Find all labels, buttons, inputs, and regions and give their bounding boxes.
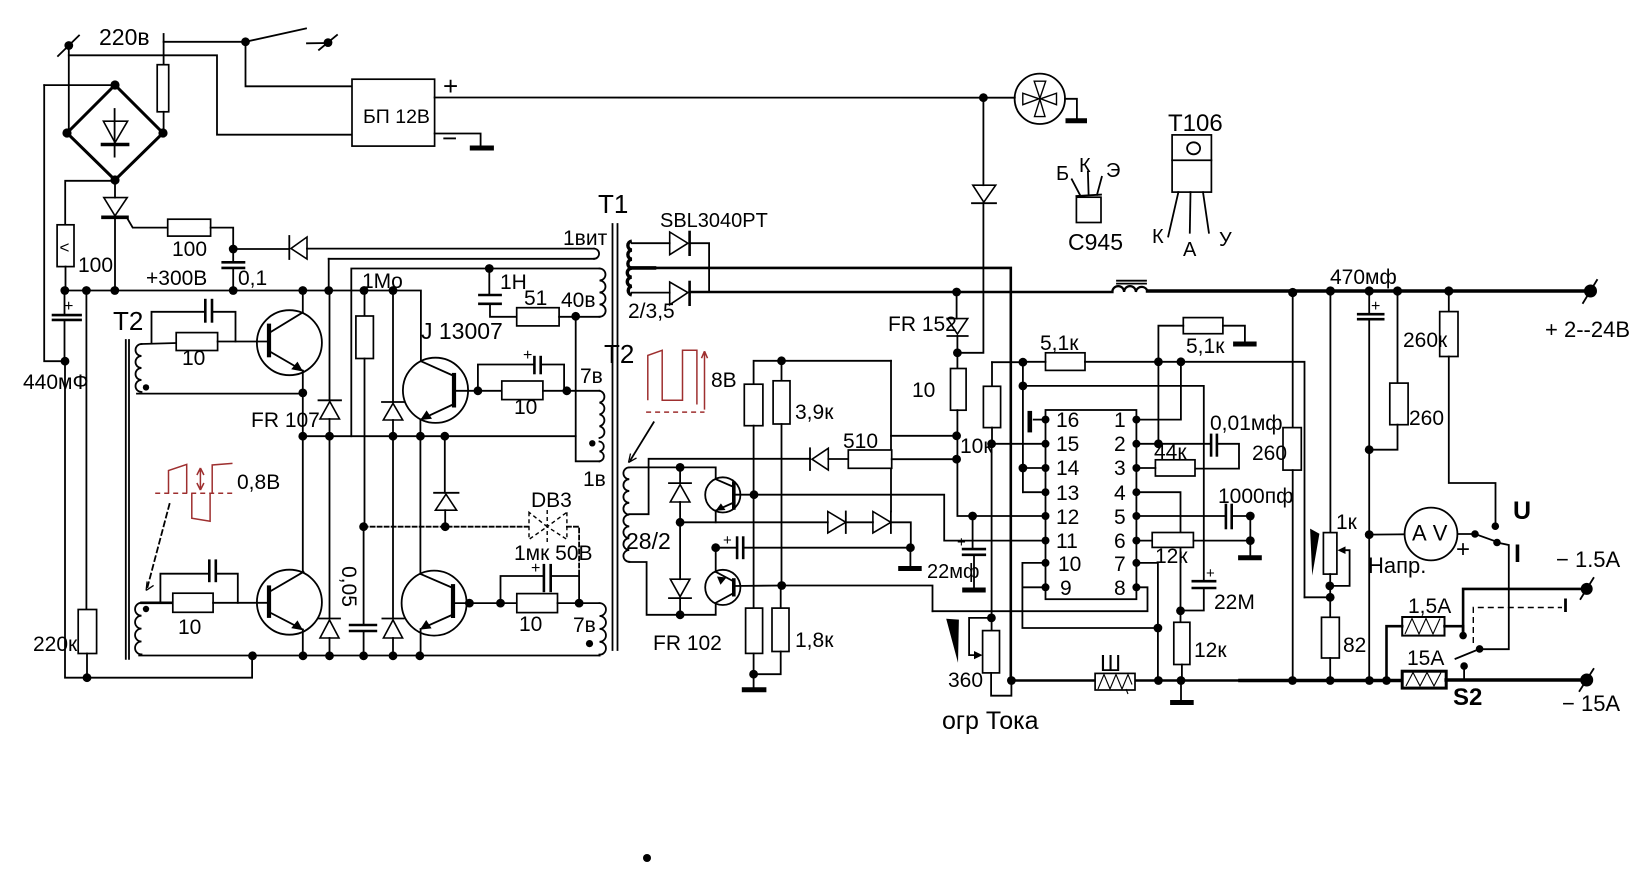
transistor C945 (pictorial) — [1072, 172, 1102, 223]
wire: 3,9к top run — [754, 361, 891, 384]
node: 7в lower top — [575, 599, 584, 608]
wire: center tap line to minus bus — [655, 268, 1011, 682]
wire: 10к column down to 360 pot — [991, 444, 993, 631]
svg-text:22М: 22М — [1214, 591, 1255, 614]
diode D1 (series pair) — [828, 512, 873, 534]
wire: fuse to bridge right corner — [163, 112, 165, 133]
resistor 1Mo — [356, 291, 374, 527]
node dots on +300V rail — [60, 286, 397, 295]
svg-text:+: + — [1456, 536, 1470, 563]
winding 28/2 — [623, 467, 629, 561]
svg-text:<: < — [60, 238, 70, 257]
svg-text:260к: 260к — [1403, 329, 1448, 352]
wire: to pin 15 — [992, 443, 1046, 445]
node: cap right / ground — [906, 543, 915, 552]
svg-text:10: 10 — [178, 616, 201, 639]
switch U/I common — [1471, 530, 1496, 541]
core T1/T2 center — [613, 224, 618, 650]
transistor Q5 (FR102 top) — [705, 477, 740, 512]
svg-text:FR 107: FR 107 — [251, 409, 320, 432]
svg-text:7в: 7в — [573, 614, 596, 637]
wire: I contact down — [1481, 543, 1509, 650]
svg-text:U: U — [1513, 497, 1531, 525]
diode D up (28/2) — [669, 467, 691, 522]
wire: T2b top to resistor — [142, 601, 173, 604]
terminal +2--24В — [1583, 280, 1597, 303]
wire: PSU minus to ground — [435, 134, 481, 147]
svg-text:К: К — [1079, 155, 1091, 177]
node: 40в bottom — [571, 312, 580, 321]
wire: +12V rail to fan — [435, 97, 1015, 99]
resistor 10 (Q1 base) — [176, 333, 217, 351]
wire: 40в bottom down to 1в winding — [576, 317, 600, 462]
diac DB3 (dashed bowtie) — [529, 510, 567, 542]
wire: bottom return to emitter rail — [87, 656, 252, 678]
pot 360 — [969, 618, 1011, 696]
wire: node to diode — [233, 248, 289, 250]
node: 260 join — [1365, 445, 1374, 454]
svg-text:А V: А V — [1412, 521, 1448, 546]
resistor 260к — [1440, 291, 1496, 524]
svg-text:8В: 8В — [711, 369, 737, 392]
wire: thyristor gate — [127, 217, 168, 227]
resistor 51 — [517, 308, 559, 326]
wire: dashed DB3 right — [567, 527, 579, 575]
resistor 220к — [78, 610, 96, 654]
wire: rail to 220к resistor — [85, 291, 87, 610]
svg-text:470мф: 470мф — [1330, 266, 1397, 289]
wire: thermistor to +300 rail — [65, 267, 67, 291]
wire: 1304 column to pot bottom — [1305, 596, 1331, 598]
terminal -15A — [1580, 669, 1594, 691]
node: 360 top — [987, 614, 996, 623]
winding T2b (bottom feedback) — [135, 603, 141, 655]
svg-text:260: 260 — [1409, 407, 1444, 430]
node: AV meter join — [1365, 530, 1374, 539]
resistor 44к — [1155, 460, 1195, 476]
wire: resistor to 7в lower top — [558, 602, 600, 604]
wire A: to FR152 column — [891, 435, 957, 437]
wedge (1к pot) — [1310, 529, 1319, 576]
svg-text:14: 14 — [1056, 457, 1080, 480]
svg-text:2: 2 — [1114, 433, 1126, 456]
contact I — [1493, 539, 1501, 547]
wire: 40в top line — [351, 269, 599, 437]
svg-text:Ш: Ш — [1100, 650, 1121, 676]
diode D2 (series pair) — [873, 512, 911, 548]
svg-text:510: 510 — [843, 430, 878, 453]
resistor 12к no.1 — [1152, 533, 1193, 548]
wire: pin 4 loop — [1136, 492, 1180, 610]
diode symbol inside bridge — [103, 109, 128, 157]
svg-text:1,8к: 1,8к — [795, 629, 834, 652]
svg-text:82: 82 — [1343, 634, 1366, 657]
winding T2a (top feedback) — [136, 344, 142, 392]
pot 1к — [1323, 291, 1349, 617]
wire: top AC run from fuse to switch — [164, 34, 245, 65]
wire: lower AC run to PSU — [69, 55, 352, 134]
node: R_b top — [777, 356, 786, 365]
block БП 12В — [352, 79, 435, 146]
wire: bridge top corner to left vertical — [44, 84, 115, 86]
resistor 5,1к no.2 — [1183, 318, 1223, 334]
svg-text:3,9к: 3,9к — [795, 401, 834, 424]
svg-text:А: А — [1183, 239, 1197, 261]
wire: 5,1к no.2 right to ground — [1223, 326, 1245, 342]
wire: Q1 collector to rail — [302, 291, 304, 313]
polarity dot T2b — [143, 606, 149, 612]
node: fan tap — [979, 93, 988, 102]
wire: gate resistor to node — [211, 228, 234, 249]
svg-text:FR 152: FR 152 — [888, 313, 957, 336]
wire: 28/2 bottom to Q6 collector — [629, 562, 715, 615]
wire: Q2 emitter to bus to Q4 collector — [419, 419, 421, 574]
diode SBL top — [670, 232, 690, 255]
resistor R_a (divider top) — [744, 384, 763, 426]
svg-text:15А: 15А — [1407, 647, 1444, 670]
wire: diode down to FR152 node — [957, 203, 983, 353]
svg-text:1вит: 1вит — [563, 227, 608, 250]
svg-text:9: 9 — [1060, 577, 1072, 600]
wire: Q4 base — [453, 602, 517, 604]
svg-text:0,01мф: 0,01мф — [1210, 412, 1283, 435]
svg-text:Т106: Т106 — [1168, 110, 1223, 137]
wire: 5,1к left — [1023, 361, 1046, 363]
resistor 260 no.1 — [1283, 293, 1301, 681]
svg-text:DB3: DB3 — [531, 489, 572, 512]
svg-text:К: К — [1152, 226, 1164, 248]
wire: 10к top jog — [992, 361, 1023, 363]
diode FR107 no.3 — [319, 436, 340, 655]
ground (22мф left) — [898, 548, 922, 569]
svg-text:T1: T1 — [598, 189, 628, 219]
capacitor 440мФ — [53, 291, 81, 362]
wire: 1,5А left leg — [1387, 626, 1403, 680]
node: 5,1к no.2 tap — [1154, 357, 1163, 366]
svg-text:260: 260 — [1252, 442, 1287, 465]
ground (fan) — [1066, 118, 1088, 123]
pin 16 stub and bar — [1028, 411, 1046, 433]
wire: column down to pin12 wire — [957, 410, 1045, 516]
thyristor Т106 (pictorial) — [1168, 135, 1211, 237]
wire: 7в lower bottom to emitter rail — [599, 654, 601, 657]
svg-text:5,1к: 5,1к — [1040, 332, 1079, 355]
capacitor 1000пф — [1226, 505, 1250, 528]
resistor 1,8к — [754, 586, 789, 675]
node dots on + rail — [1288, 286, 1453, 297]
svg-text:FR 102: FR 102 — [653, 632, 722, 655]
dashed arrow to winding — [146, 504, 169, 590]
svg-text:+: + — [64, 298, 73, 315]
svg-text:Т2: Т2 — [113, 306, 143, 336]
svg-text:Напр.: Напр. — [1368, 553, 1426, 578]
wire: 220к bottom to corner — [86, 654, 88, 678]
wire: pin 6 — [1136, 540, 1152, 542]
pin dots left — [1042, 416, 1050, 592]
node: 440мФ bottom — [61, 357, 70, 366]
diode (510 branch) — [810, 448, 848, 470]
wire: Q6 base — [734, 585, 782, 588]
node: diode column top — [676, 463, 685, 472]
ground (12к no.2) — [1170, 681, 1194, 703]
dashed link S2 — [1473, 599, 1565, 644]
svg-text:−: − — [442, 123, 457, 153]
wire: y386 run to 12к no.1 — [1023, 386, 1204, 581]
wire: pins 9/10 loop — [1022, 563, 1158, 628]
svg-text:7: 7 — [1114, 553, 1126, 576]
node: DB3 left junction — [441, 522, 450, 531]
resistor 10 (FR152) — [951, 369, 967, 411]
svg-text:1мк 50В: 1мк 50В — [514, 542, 593, 565]
contact U — [1492, 522, 1500, 530]
meter AV — [1405, 508, 1458, 561]
resistor 3,9к — [773, 361, 790, 586]
waveform 0,8В (red) — [155, 463, 235, 521]
wire: center tap (thick stub) — [632, 266, 655, 270]
svg-text:0,1: 0,1 — [238, 267, 267, 290]
ground (5,1к no.2) — [1233, 342, 1257, 347]
node: 1Mo / DB3 dashed junction — [359, 522, 368, 531]
polarity dot T2a — [143, 384, 149, 390]
transistor Q1 (driver top) — [257, 310, 322, 375]
node: Q1 emitter / winding bottom — [298, 389, 307, 398]
capacitor 0,05 — [350, 625, 376, 656]
wire: +output rail (thick) — [1148, 289, 1585, 293]
wire: mid bus — [303, 435, 576, 437]
capacitor 1Н — [479, 269, 516, 317]
svg-text:220к: 220к — [33, 633, 78, 656]
resistor 12к no.2 — [1174, 611, 1190, 680]
node: pin2/cap tap — [1154, 439, 1163, 448]
svg-text:10: 10 — [514, 396, 537, 419]
wire: Q6 emitter up — [715, 548, 717, 572]
wire: -1.5A output (thick) — [1463, 589, 1587, 636]
wire: SBL top output — [690, 243, 710, 291]
node: 7в top — [562, 386, 571, 395]
node: wire A junction — [952, 431, 961, 440]
wire: Q5 base — [734, 494, 755, 496]
fuse F1 — [157, 65, 169, 112]
fan M1 — [1015, 74, 1065, 124]
wire: Q5 base long run to pin 11 — [754, 495, 1046, 541]
winding 1в — [600, 442, 604, 462]
diode (bus to DB3) — [434, 436, 458, 527]
capacitor (Q1 base speedup) — [152, 300, 236, 343]
diode (fan feed) — [972, 185, 996, 203]
terminal -1.5A — [1581, 578, 1594, 599]
svg-text:+ 2--24В: + 2--24В — [1545, 317, 1630, 342]
transistor Q6 (FR102 bottom) — [705, 570, 740, 605]
wire: R_a bottom / Q5 base column — [753, 426, 755, 608]
ground (1000пф) — [1238, 555, 1262, 560]
ground (PSU) — [470, 146, 494, 151]
svg-text:4: 4 — [1114, 482, 1126, 505]
resistor 5,1к no.1 — [1046, 353, 1086, 371]
wire: left aux column (pins 14/13) — [1023, 362, 1046, 492]
svg-text:10: 10 — [182, 347, 205, 370]
resistor 82 — [1322, 617, 1340, 680]
svg-text:+: + — [957, 534, 966, 551]
wire: ground rail (shunt rail) — [1011, 679, 1402, 682]
wire: switch node down to PSU input — [246, 42, 353, 87]
svg-text:1к: 1к — [1336, 511, 1358, 534]
node: cap left — [496, 599, 505, 608]
winding 40в — [600, 269, 606, 317]
svg-text:1,5А: 1,5А — [1408, 595, 1451, 618]
svg-text:Б: Б — [1056, 163, 1069, 185]
svg-text:S2: S2 — [1453, 684, 1482, 711]
svg-text:Э: Э — [1106, 160, 1120, 182]
svg-text:1: 1 — [1114, 409, 1126, 432]
resistor 10 (Q3 base) — [173, 593, 213, 612]
wire: Q6 base run (огр Тока) — [782, 586, 933, 612]
waveform 8В (red) — [646, 350, 707, 412]
stray dot — [643, 854, 651, 862]
wire: fan feed down — [982, 98, 984, 186]
wire: pin 1 — [1136, 362, 1181, 420]
svg-text:2/3,5: 2/3,5 — [628, 300, 675, 323]
svg-text:360: 360 — [948, 669, 983, 692]
wire: resistor to Q3 base — [213, 602, 267, 604]
svg-text:12к: 12к — [1155, 545, 1188, 568]
svg-text:+: + — [443, 71, 458, 101]
wedge (360 pot) — [946, 619, 959, 663]
wire: Q3 emitter to rail — [302, 630, 304, 656]
transistor Q4 J13007 (lower) — [402, 571, 467, 636]
capacitor 1мк 50В — [501, 560, 580, 603]
wire: +300V rail — [65, 291, 421, 362]
node: 5,1к no.1 left — [1019, 358, 1028, 367]
node: FR152 bottom — [953, 348, 962, 357]
wire: meter left — [1369, 533, 1404, 535]
wire: Q1 emitter down — [302, 371, 304, 394]
wire: T2a bottom line — [137, 393, 303, 395]
svg-text:0,8В: 0,8В — [237, 471, 280, 494]
svg-text:Т2: Т2 — [604, 339, 634, 369]
svg-text:15: 15 — [1056, 433, 1079, 456]
svg-text:С945: С945 — [1068, 229, 1123, 255]
resistor 260 no.2 — [1369, 291, 1408, 450]
wire: pin 5 — [1136, 515, 1226, 517]
svg-text:28/2: 28/2 — [626, 528, 671, 554]
wire: fan to ground — [1065, 99, 1077, 119]
diode FR107 no.1 — [319, 291, 342, 437]
svg-text:220в: 220в — [99, 24, 150, 50]
wire: 51 to 40в bottom — [559, 316, 599, 318]
wire: Q3 collector up to bus column — [302, 436, 304, 572]
svg-text:12: 12 — [1056, 506, 1079, 529]
winding 1вит (hairpin) — [307, 249, 599, 291]
capacitor (Q2 base, polarized) — [478, 347, 564, 391]
svg-text:1в: 1в — [583, 468, 606, 491]
svg-text:100: 100 — [78, 254, 113, 277]
wire: pin 3 — [1136, 467, 1155, 469]
wire: top run down to diode pair — [890, 361, 892, 512]
svg-text:− 15А: − 15А — [1562, 691, 1620, 716]
wire: 1000пф ground column — [1249, 516, 1251, 556]
wire: 510 run — [809, 458, 811, 460]
svg-text:11: 11 — [1056, 530, 1078, 553]
svg-text:6: 6 — [1114, 530, 1126, 553]
node: pin14 edge — [1019, 464, 1028, 473]
svg-text:22мф: 22мф — [927, 561, 979, 583]
node: 1000пф right — [1246, 512, 1255, 521]
svg-text:13: 13 — [1056, 482, 1079, 505]
node: Q5 base tap — [750, 490, 759, 499]
wire: Q1 emitter to mid bus — [302, 394, 304, 437]
IC box U1 — [1046, 410, 1137, 599]
wire: 28/2 center tap long run — [629, 459, 810, 514]
shunt Ш — [1095, 673, 1135, 694]
capacitor (Q6 emitter) — [716, 532, 911, 558]
svg-text:I: I — [1514, 540, 1521, 568]
node: 22мф tap — [968, 512, 977, 521]
svg-text:7в: 7в — [580, 365, 603, 388]
switch S1 blade — [241, 29, 337, 50]
svg-text:10: 10 — [519, 613, 542, 636]
svg-text:3: 3 — [1114, 457, 1126, 480]
node: wire B junction — [952, 455, 961, 464]
node: bottom left corner — [83, 673, 92, 682]
svg-text:БП 12В: БП 12В — [363, 106, 430, 128]
svg-text:12к: 12к — [1194, 639, 1227, 662]
node: pin4/pin8/22М junction — [1176, 606, 1185, 615]
node: divider ground — [749, 670, 758, 679]
svg-text:+: + — [523, 347, 532, 364]
resistor 10 (Q2 base) — [502, 381, 543, 400]
fuse 1,5А — [1402, 617, 1444, 636]
wire: 5,1к no.2 left — [1158, 326, 1183, 444]
svg-text:1000пф: 1000пф — [1218, 485, 1293, 508]
diode VD2 (to 1вит winding) — [289, 236, 307, 259]
node dots on shunt rail — [1007, 676, 1391, 685]
node: 10к bottom / pin15 — [987, 439, 996, 448]
node: contact C1 — [1459, 632, 1467, 640]
wire: AC left node down to bridge left corner — [68, 46, 70, 134]
svg-text:У: У — [1219, 229, 1232, 251]
svg-text:1Н: 1Н — [500, 271, 527, 294]
svg-text:+: + — [1371, 298, 1380, 315]
diode SBL bottom — [670, 282, 690, 305]
capacitor 0,01мф — [1195, 435, 1239, 469]
resistor 10 (Q4 base) — [517, 594, 558, 613]
transistor Q2 symbol — [403, 358, 468, 423]
node: pins 7/9/10 junction — [1154, 624, 1163, 633]
svg-text:8: 8 — [1114, 577, 1126, 600]
node: gate node — [229, 245, 238, 254]
wire: T2a top to base resistor — [142, 343, 177, 344]
node: FR152 tap — [952, 288, 961, 297]
svg-text:0,05: 0,05 — [337, 566, 360, 607]
node dots on mid bus — [298, 432, 449, 441]
wire: down left side to bottom — [65, 361, 87, 678]
node: 1Н top — [485, 264, 494, 273]
diode FR152 — [947, 292, 967, 369]
svg-text:40в: 40в — [561, 289, 596, 312]
wire: plus rail from rectifier to inductor — [690, 291, 1113, 294]
wire: -15A output (thick) — [1446, 678, 1587, 682]
node: pin14 wire — [1019, 382, 1028, 391]
pin numbers left — [1056, 409, 1081, 600]
node: Q4 base — [465, 599, 474, 608]
wire: dashed DB3 left — [364, 526, 529, 528]
fuse 15А — [1402, 671, 1446, 688]
wire: secondary bottom to diode — [632, 292, 670, 294]
svg-text:5: 5 — [1114, 506, 1126, 529]
transistor Q3 (driver bottom) — [257, 570, 322, 635]
winding 7в upper — [600, 391, 605, 438]
wire: 5,1к right long run — [1085, 362, 1305, 598]
